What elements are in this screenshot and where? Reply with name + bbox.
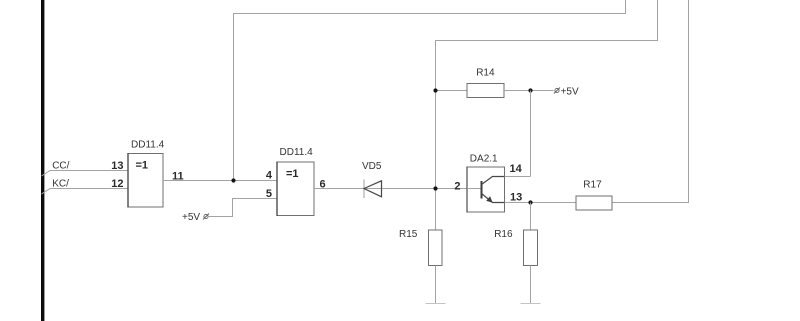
- resistor R14 left wire: [436, 90, 468, 92]
- wire gate1 output 11 to gate2 pin 4: [163, 180, 277, 182]
- wire R14 right to +5V terminal: [504, 90, 554, 92]
- wire W1: gate1 output node up and across the top: [234, 0, 626, 181]
- svg-text:=1: =1: [286, 168, 299, 180]
- resistor R14 body: [467, 84, 504, 98]
- transistor emitter stroke: [482, 194, 505, 203]
- wire CC/ entry from bus: [42, 171, 129, 177]
- svg-text:4: 4: [266, 170, 273, 182]
- svg-text:CC/: CC/: [52, 161, 69, 172]
- wire R15 bottom: [435, 266, 437, 304]
- resistor R17 body: [576, 196, 612, 210]
- junction node W2/R14: [433, 88, 437, 92]
- resistor R15 body: [429, 230, 443, 266]
- svg-text:R16: R16: [494, 229, 513, 240]
- svg-text:DD11.4: DD11.4: [280, 147, 314, 158]
- svg-text:5: 5: [266, 188, 272, 200]
- junction node diode/R15/W2: [433, 186, 437, 190]
- wire +5V to gate2 pin 5: [208, 199, 277, 217]
- bus line (thick vertical at left edge): [41, 0, 44, 321]
- svg-text:+5V: +5V: [182, 212, 200, 223]
- transistor Q inside DA2.1: base lead: [467, 188, 481, 190]
- junction node R14/pin14 riser: [528, 88, 532, 92]
- wire emitter to R16/R17 node: [505, 202, 577, 204]
- svg-text:13: 13: [510, 192, 522, 204]
- resistor R16 body: [524, 230, 538, 266]
- XOR gate DD11.4 (first) box: [128, 154, 163, 208]
- wire W2: top second rail down through R14/diode node to R15: [436, 0, 658, 230]
- junction node at gate1 output: [231, 178, 235, 182]
- svg-text:R17: R17: [583, 180, 602, 191]
- svg-text:14: 14: [510, 163, 523, 175]
- svg-text:KC/: KC/: [52, 179, 69, 190]
- XOR gate DD11.4 (second) box: [277, 162, 314, 216]
- svg-text:13: 13: [111, 160, 123, 172]
- terminal circle (+5V lower): [203, 214, 209, 220]
- svg-text:R14: R14: [476, 68, 495, 79]
- wire gate2 output 6 to DA2.1 pin 2: [314, 188, 467, 190]
- ground cap under R15: [426, 303, 446, 305]
- wire R16 bottom: [530, 266, 532, 304]
- svg-text:DA2.1: DA2.1: [470, 154, 498, 165]
- diode VD5 cathode bar: [363, 180, 365, 199]
- comparator DA2.1 box: [467, 167, 505, 212]
- svg-text:+5V: +5V: [561, 87, 579, 98]
- ground cap under R16: [521, 303, 541, 305]
- terminal circle (+5V upper): [554, 88, 560, 94]
- svg-text:=1: =1: [136, 160, 149, 172]
- wire W3: right rail down to R17: [612, 0, 689, 203]
- transistor collector stroke: [482, 177, 505, 185]
- svg-text:VD5: VD5: [362, 161, 382, 172]
- wire collector to riser: [505, 176, 531, 178]
- diode VD5 triangle: [364, 181, 382, 197]
- svg-text:2: 2: [454, 181, 460, 193]
- wire KC/ entry from bus: [42, 189, 129, 195]
- transistor emitter arrowhead: [486, 196, 492, 202]
- svg-text:R15: R15: [399, 229, 418, 240]
- svg-text:DD11.4: DD11.4: [131, 140, 165, 151]
- svg-text:12: 12: [111, 178, 123, 190]
- wire R16 riser: [530, 203, 532, 231]
- junction node emitter/R16/R17: [528, 200, 532, 204]
- wire pin14 riser: [530, 91, 532, 177]
- transistor base bar: [481, 181, 483, 199]
